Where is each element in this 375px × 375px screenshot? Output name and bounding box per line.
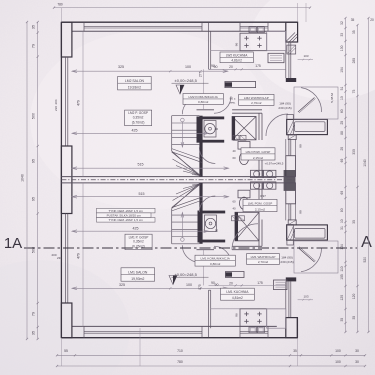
interior dim line 515 lower — [72, 196, 229, 198]
hand basin lower — [251, 204, 258, 211]
boiler / vent units on party wall upper — [251, 170, 263, 177]
svg-text:330: 330 — [352, 149, 356, 155]
svg-text:1040: 1040 — [363, 159, 367, 167]
svg-text:4,81m2: 4,81m2 — [232, 296, 243, 300]
toilet upper — [238, 142, 250, 150]
pier: right wall top corner — [286, 22, 298, 42]
svg-text:60: 60 — [232, 200, 236, 204]
utility closet walls upper (thick) — [197, 117, 225, 120]
room label: LM1 SALON — [121, 268, 155, 281]
window: left salon lower glazing — [65, 214, 67, 304]
svg-text:+0,97m=249,5: +0,97m=249,5 — [265, 161, 284, 165]
svg-text:TYNK CEM.-WAP. 1,5 cm: TYNK CEM.-WAP. 1,5 cm — [109, 218, 144, 222]
svg-text:230 (215): 230 (215) — [278, 106, 291, 110]
window: top salon glazing — [84, 25, 202, 27]
svg-text:4,81m2: 4,81m2 — [231, 59, 242, 63]
radiator kitchen upper — [268, 53, 284, 62]
svg-text:103: 103 — [303, 54, 308, 58]
kitchen counter edge lower — [211, 308, 286, 310]
fridge lower — [267, 309, 286, 328]
svg-text:100: 100 — [185, 65, 191, 69]
svg-text:LM1 WIATROLAP: LM1 WIATROLAP — [251, 255, 276, 259]
radiator vestibule lower — [287, 225, 293, 246]
window: left salon upper glazing — [65, 57, 67, 146]
party wall upper line — [61, 176, 295, 178]
svg-text:1A: 1A — [4, 235, 22, 252]
utility closet walls lower (thick) — [198, 211, 226, 214]
entry door arc lower — [301, 248, 322, 272]
svg-text:2,70m2: 2,70m2 — [258, 260, 269, 264]
interior dim line 515 upper — [72, 167, 229, 169]
room label: LM1 P. GOSP — [125, 234, 152, 250]
interior dim line 90/20/175 upper kitchen — [209, 68, 286, 70]
svg-text:425: 425 — [132, 129, 138, 133]
svg-text:20: 20 — [340, 147, 344, 151]
bath east wall lower — [258, 220, 260, 247]
wall: top exterior inner line — [72, 30, 286, 32]
entry door leaf lower — [298, 248, 315, 263]
svg-text:LM1 KOMUNIKACJA: LM1 KOMUNIKACJA — [201, 257, 231, 261]
svg-text:103: 103 — [303, 295, 308, 299]
vent grilles pair lower — [232, 216, 238, 221]
svg-text:500: 500 — [32, 247, 36, 253]
room label: LM1 KUCHNIA — [221, 288, 255, 300]
svg-text:104: 104 — [340, 244, 344, 250]
hall/bath partition wall upper — [232, 109, 262, 111]
svg-text:79: 79 — [32, 312, 36, 316]
svg-text:60: 60 — [340, 109, 344, 113]
stairs lower: winder treads fan — [172, 184, 201, 208]
window: top kitchen glazing — [240, 25, 268, 27]
stairs upper: walk line with start circle and arrow — [181, 122, 183, 148]
sliding door bar upper — [225, 82, 256, 88]
porch parapet lower unit — [287, 225, 328, 240]
svg-text:479: 479 — [77, 100, 81, 106]
svg-text:230: 230 — [57, 256, 62, 260]
door arc bath inner upper — [199, 148, 215, 164]
stairs upper: right wall (thick) — [199, 116, 202, 177]
svg-text:230: 230 — [54, 106, 58, 111]
svg-text:35: 35 — [352, 220, 356, 224]
cooker lower — [240, 309, 267, 327]
stairs lower: landing diagonal — [172, 184, 200, 209]
left dim line A (overall 1040) — [26, 22, 28, 339]
svg-text:88: 88 — [299, 144, 303, 148]
svg-text:51: 51 — [340, 87, 344, 91]
radiator vestibule upper — [287, 115, 293, 136]
room label: LM2 P. GOSP — [125, 110, 152, 126]
stairs enclosure lower: left string — [171, 209, 173, 244]
entry door arc upper — [301, 88, 322, 112]
svg-text:90: 90 — [215, 228, 219, 232]
svg-text:20: 20 — [229, 282, 233, 286]
svg-text:95: 95 — [32, 197, 36, 201]
stairs upper: break cut line — [172, 149, 203, 160]
party wall lower line — [61, 182, 295, 184]
svg-text:130: 130 — [340, 45, 344, 51]
vertical dim chain 277 upper kitchen — [203, 69, 205, 110]
room label: LM1 KOMUNIKACJA — [195, 255, 235, 266]
porch offset dim 103 upper — [298, 59, 313, 61]
svg-text:285: 285 — [352, 58, 356, 64]
svg-text:425: 425 — [133, 226, 139, 230]
svg-text:25: 25 — [340, 121, 344, 125]
svg-text:LM2 WIATROLAP: LM2 WIATROLAP — [244, 96, 269, 100]
jamb: right wall upper door — [286, 78, 296, 82]
hand basin upper — [251, 149, 258, 156]
svg-text:90: 90 — [211, 64, 215, 68]
wall: right between window 88 and porch lower (hatched) — [288, 220, 296, 225]
svg-text:86: 86 — [234, 43, 238, 47]
door arc salon-hall upper — [182, 97, 199, 114]
door arc hall-bath lower — [214, 246, 231, 263]
svg-text:0,35m2: 0,35m2 — [133, 115, 144, 119]
svg-text:LWJ POW. GOSP: LWJ POW. GOSP — [246, 150, 271, 154]
svg-text:88: 88 — [340, 131, 344, 135]
vent grilles pair upper — [233, 135, 239, 140]
room label: LW2 POW. GOSP — [241, 148, 275, 160]
door arc vestibule upper — [266, 114, 288, 136]
toilet lower — [238, 190, 250, 198]
svg-text:±0,00=248,5: ±0,00=248,5 — [175, 78, 198, 83]
kitchen sink upper — [249, 27, 256, 33]
paper shading blotches — [0, 260, 130, 375]
stairs lower: walk line with start circle and arrow — [181, 213, 183, 239]
svg-text:35: 35 — [351, 18, 355, 22]
svg-text:19,93m2: 19,93m2 — [131, 277, 144, 281]
svg-text:PUSTAK SILKA 18/20 cm: PUSTAK SILKA 18/20 cm — [107, 214, 142, 218]
svg-text:35: 35 — [352, 316, 356, 320]
svg-text:0,97: 0,97 — [260, 194, 266, 198]
svg-text:2,70m2: 2,70m2 — [251, 101, 262, 105]
door arc vestibule lower — [232, 224, 258, 250]
stairs lower: right wall (thick) — [199, 183, 202, 244]
room label: LM2 KOMUNIKACJA — [183, 94, 223, 105]
svg-text:100: 100 — [335, 360, 341, 364]
svg-text:40: 40 — [232, 149, 236, 153]
svg-text:90: 90 — [215, 127, 219, 131]
svg-text:LM2 KOMUNIKACJA: LM2 KOMUNIKACJA — [189, 95, 219, 99]
kitchen wall upper (salon/kitchen partition) — [208, 22, 210, 69]
stairs lower: treads — [172, 236, 200, 238]
shower with cross upper — [232, 117, 256, 140]
svg-text:710: 710 — [177, 349, 183, 353]
window jambs top wall — [83, 22, 85, 31]
right dim line R2 — [357, 25, 359, 332]
top dim line overall — [54, 7, 310, 9]
interior dim line 425 lower — [72, 230, 209, 232]
svg-text:zew.: zew. — [229, 100, 235, 104]
stairs upper: winder treads fan — [172, 152, 201, 176]
svg-text:10: 10 — [340, 96, 344, 100]
svg-text:32: 32 — [340, 21, 344, 25]
sliding door bar lower — [226, 272, 245, 278]
kitchen counter edge upper — [211, 50, 286, 52]
vertical dim chain 479 upper — [82, 31, 84, 176]
svg-text:2,15m2: 2,15m2 — [255, 207, 266, 211]
svg-text:88: 88 — [299, 210, 303, 214]
svg-text:90: 90 — [211, 281, 215, 285]
svg-text:110: 110 — [340, 266, 344, 271]
fridge upper — [267, 31, 286, 50]
bottom dim line 2 (780/100/30) — [57, 365, 365, 367]
entry door leaf upper — [298, 98, 315, 113]
room label: LW2 KUCHNIA — [220, 52, 253, 63]
vertical dim chain 277 lower kitchen — [203, 250, 205, 285]
svg-text:120: 120 — [340, 295, 344, 301]
svg-text:520: 520 — [363, 257, 367, 263]
svg-text:0,80m2: 0,80m2 — [198, 100, 209, 104]
wall: right below party wall — [286, 183, 296, 204]
svg-text:5,38 M: 5,38 M — [330, 93, 334, 103]
pier hatched in right upper window zone — [287, 45, 296, 54]
svg-text:100: 100 — [186, 283, 192, 287]
svg-text:35: 35 — [32, 331, 36, 335]
boiler / vent units on party wall lower — [251, 182, 263, 189]
svg-text:35: 35 — [352, 30, 356, 34]
svg-text:2,15m2: 2,15m2 — [253, 156, 264, 160]
svg-text:31: 31 — [340, 226, 344, 230]
svg-text:35: 35 — [293, 349, 297, 353]
stairs enclosure upper: left string — [171, 116, 173, 151]
top extension lines — [60, 8, 62, 22]
svg-text:LM1 POM. GOSP: LM1 POM. GOSP — [248, 202, 273, 206]
right dim line R3 — [368, 18, 370, 332]
door arc salon-hall lower — [182, 245, 199, 262]
entry terrace outline upper — [294, 87, 338, 119]
svg-text:780: 780 — [57, 2, 63, 6]
svg-text:479: 479 — [77, 253, 81, 259]
svg-text:75: 75 — [352, 90, 356, 94]
svg-text:LW2 KUCHNIA: LW2 KUCHNIA — [226, 53, 248, 57]
svg-text:120: 120 — [352, 293, 356, 299]
svg-text:515: 515 — [138, 163, 144, 167]
svg-text:LM1 SALON: LM1 SALON — [128, 271, 148, 275]
window 88 right wall lower glazing — [288, 204, 290, 221]
wall: right between porch and window 88 upper (hatched) — [288, 135, 296, 140]
washing machine upper — [204, 121, 216, 138]
svg-text:95: 95 — [32, 159, 36, 163]
svg-text:204: 204 — [54, 99, 58, 104]
washing machine lower — [205, 215, 217, 232]
window: right upper glazing — [288, 42, 290, 78]
svg-text:19,93m2: 19,93m2 — [128, 86, 141, 90]
svg-text:105: 105 — [340, 274, 344, 280]
party wall centreline — [61, 179, 295, 181]
vertical dim chain 479 lower — [82, 183, 84, 327]
cooker upper — [240, 33, 267, 51]
pier: left wall top corner — [61, 22, 72, 57]
svg-text:500: 500 — [32, 113, 36, 119]
svg-text:20: 20 — [370, 18, 374, 22]
porch offset dim 103 lower — [298, 299, 313, 301]
svg-text:69: 69 — [340, 159, 344, 163]
svg-text:(6,76m2): (6,76m2) — [132, 120, 145, 124]
door arc hall-bath upper — [214, 96, 231, 113]
svg-text:79: 79 — [32, 44, 36, 48]
room label: LM1 POW. GOSP — [243, 199, 277, 211]
svg-text:A: A — [361, 234, 372, 251]
svg-text:80: 80 — [340, 208, 344, 212]
svg-text:277: 277 — [199, 72, 203, 78]
interior dim line 90/20/175 lower kitchen — [209, 284, 286, 286]
jamb: right wall lower door — [286, 277, 296, 281]
bottom dim line 1 (55/710/35/100/30) — [57, 354, 365, 356]
wall: top exterior outer line — [61, 21, 297, 23]
bath east wall upper — [258, 113, 260, 140]
svg-text:325: 325 — [118, 65, 124, 69]
wall: bottom exterior inner line — [72, 325, 277, 327]
svg-text:515: 515 — [139, 192, 145, 196]
section line 1A-A — [24, 247, 357, 249]
stairs lower: top edge — [172, 243, 200, 245]
room label: LM1 WIATROLAP — [247, 254, 280, 265]
svg-text:184 (90): 184 (90) — [281, 256, 293, 260]
entry terrace outline lower — [294, 241, 338, 273]
stairs upper: top edge — [172, 115, 200, 117]
radiator kitchen lower — [274, 280, 288, 290]
svg-text:40: 40 — [232, 207, 236, 211]
window jambs bottom wall — [83, 326, 85, 337]
wall construction note rows — [97, 208, 156, 213]
svg-text:86: 86 — [234, 313, 238, 317]
svg-text:55: 55 — [64, 349, 68, 353]
interior dim line 325/100/90 lower salon — [72, 287, 228, 289]
svg-text:35: 35 — [32, 25, 36, 29]
right dim line R1 — [345, 18, 347, 332]
svg-text:LM2 SALON: LM2 SALON — [125, 79, 145, 83]
hall/bath partition wall lower — [232, 249, 262, 251]
svg-text:0,35m2: 0,35m2 — [133, 240, 144, 244]
svg-text:100: 100 — [335, 349, 341, 353]
svg-text:±0,00=248,5: ±0,00=248,5 — [175, 272, 198, 277]
svg-text:10: 10 — [340, 219, 344, 223]
wall: left exterior outer line — [60, 22, 62, 338]
svg-text:20: 20 — [229, 65, 233, 69]
svg-text:325: 325 — [119, 283, 125, 287]
porch parapet upper unit — [287, 119, 328, 134]
svg-text:175: 175 — [257, 281, 263, 285]
pier: left wall bottom corner — [61, 303, 72, 338]
interior dim line 325/100/90 upper salon — [72, 70, 228, 72]
shower with cross lower — [235, 212, 259, 241]
left dim line B (segments) — [37, 22, 39, 339]
svg-text:275: 275 — [198, 284, 202, 290]
kitchen wall lower (salon/kitchen partition) — [208, 290, 210, 337]
window: bottom salon glazing — [84, 331, 202, 333]
svg-text:30: 30 — [355, 360, 359, 364]
svg-text:175: 175 — [255, 64, 261, 68]
stairs upper: treads — [172, 122, 200, 124]
bottom dim extension lines — [60, 339, 62, 366]
kitchen sink lower — [249, 327, 256, 333]
svg-text:184 (90): 184 (90) — [279, 102, 291, 106]
svg-text:TYNK CEM.-WAP. 1,5 cm: TYNK CEM.-WAP. 1,5 cm — [109, 209, 144, 213]
svg-text:LM1 KUCHNIA: LM1 KUCHNIA — [226, 290, 249, 294]
svg-text:780: 780 — [177, 360, 183, 364]
wall: bottom exterior outer line — [61, 337, 298, 339]
window 88 right wall upper glazing — [288, 139, 290, 156]
svg-text:30: 30 — [355, 349, 359, 353]
wall: right above party wall — [286, 156, 296, 177]
door arc bath inner lower — [199, 196, 215, 212]
svg-text:33: 33 — [340, 33, 344, 37]
svg-text:230 (215): 230 (215) — [280, 260, 293, 264]
svg-text:60: 60 — [232, 156, 236, 160]
svg-text:1040: 1040 — [21, 174, 25, 182]
window: right lower glazing — [288, 281, 290, 317]
pier: left wall middle — [61, 146, 72, 214]
pier: right wall bottom corner — [286, 318, 298, 338]
stairs upper: landing diagonal — [172, 151, 200, 176]
room label: LM2 SALON — [118, 77, 152, 90]
svg-text:35: 35 — [340, 318, 344, 322]
svg-text:0,80m2: 0,80m2 — [210, 262, 221, 266]
room label: LM2 WIATROLAP — [239, 94, 274, 105]
stairs lower: break cut line — [172, 200, 203, 211]
svg-text:104: 104 — [340, 67, 344, 73]
window: bottom kitchen glazing — [240, 331, 268, 333]
interior dim line 425 upper — [72, 132, 209, 134]
svg-text:69: 69 — [340, 191, 344, 195]
